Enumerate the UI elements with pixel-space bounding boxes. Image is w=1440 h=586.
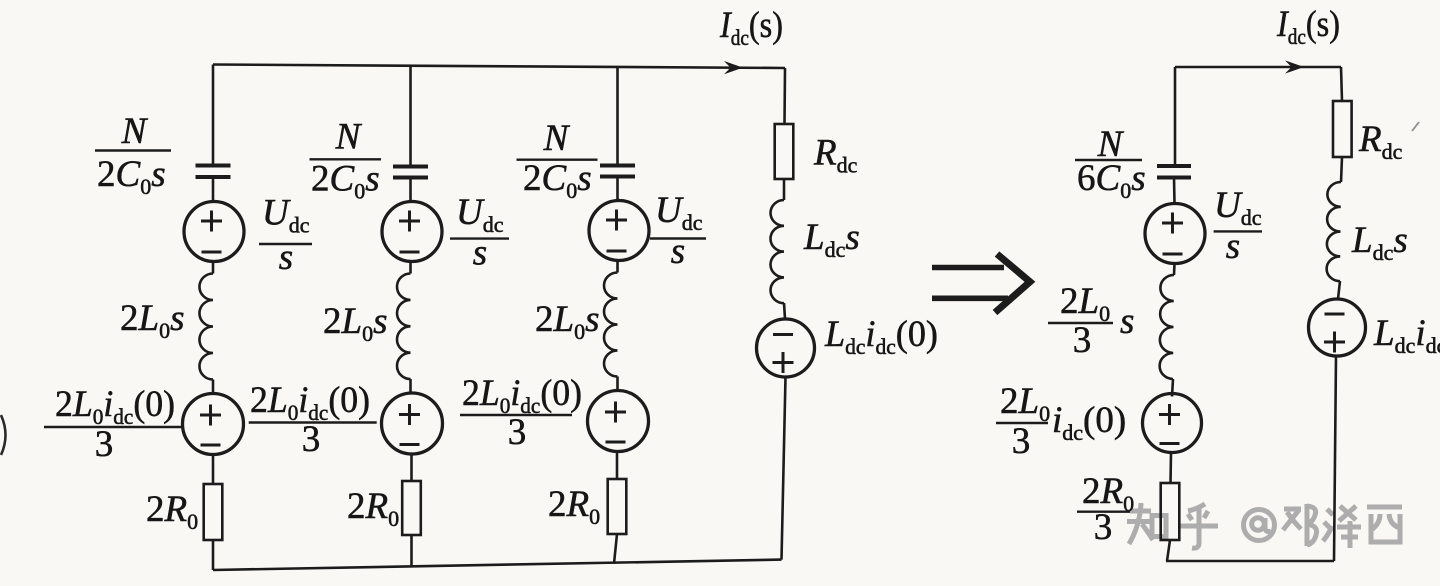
inductor Ldcs right circuit	[1327, 182, 1341, 281]
resistor Rdc main	[775, 124, 794, 179]
arrow Idc(s) right circuit	[1285, 60, 1304, 73]
wire right branch top lead	[783, 68, 786, 124]
wire branch 2 inductor to source2	[409, 379, 412, 393]
svg-text:N: N	[121, 111, 149, 152]
resistor 2R0 branch 3	[608, 479, 627, 534]
wire branch 2 source2 to resistor	[410, 454, 413, 481]
wire branch 3 source to inductor	[616, 261, 619, 273]
source Udc/s branch 3	[589, 201, 649, 261]
capacitor N/2C0s branch 1	[196, 166, 231, 178]
wire branch 2 source to inductor	[409, 262, 412, 274]
source 2L0idc(0)/3 branch 3	[588, 391, 649, 452]
wire branch 3 source2 to resistor	[616, 452, 619, 480]
wire source2 to resistor right circuit	[1169, 453, 1172, 484]
wire top bus right circuit	[1175, 66, 1341, 69]
stray mark top right	[1412, 122, 1419, 131]
wire Ldc to source right circuit	[1338, 281, 1340, 299]
svg-text:2L0s: 2L0s	[535, 299, 599, 344]
wire branch 2 cap to source	[409, 178, 412, 202]
inductor Ldcs main	[771, 200, 785, 303]
wire cap to source right circuit	[1173, 178, 1176, 204]
source 2L0/3 idc(0) right circuit	[1143, 394, 1202, 453]
svg-text:3: 3	[1012, 421, 1031, 462]
wire bottom bus node	[213, 560, 782, 570]
inductor 2L0s branch 1	[199, 274, 213, 380]
source Udc/s branch 2	[382, 202, 442, 262]
wire branch 3 top lead	[616, 67, 619, 166]
svg-text:s: s	[473, 233, 487, 274]
wire top bus node	[213, 65, 785, 69]
svg-text:N: N	[543, 118, 571, 159]
wire right branch top lead right circuit	[1341, 67, 1342, 101]
wire branch 1 top lead	[212, 65, 215, 166]
resistor Rdc right circuit	[1333, 101, 1352, 157]
inductor 2L0/3 s right circuit	[1160, 275, 1174, 379]
wire branch 2 bottom lead	[410, 535, 413, 567]
svg-text:3: 3	[95, 424, 114, 465]
resistor 2R0 branch 2	[402, 481, 421, 535]
arrow Idc(s) on top bus	[724, 61, 743, 74]
wire branch 3 cap to source	[616, 177, 619, 201]
capacitor N/2C0s branch 3	[600, 166, 635, 177]
source Ldcidc(0) main	[757, 319, 815, 377]
wire branch 1 cap to source	[212, 177, 215, 202]
capacitor N/2C0s branch 2	[393, 167, 428, 178]
svg-text:2L0s: 2L0s	[323, 301, 387, 346]
capacitor N/6C0s	[1157, 166, 1191, 178]
svg-text:Idc(s): Idc(s)	[719, 5, 783, 50]
source 2L0idc(0)/3 branch 1	[183, 394, 244, 455]
resistor 2R0 branch 1	[204, 484, 223, 540]
wire branch 1 source to inductor	[212, 262, 215, 274]
svg-text:s: s	[279, 237, 293, 278]
wire inductor to source2 right circuit	[1172, 379, 1173, 397]
inductor 2L0s branch 2	[397, 274, 411, 380]
svg-text:3: 3	[1094, 507, 1113, 548]
svg-text:2C0s: 2C0s	[97, 154, 166, 199]
wire branch 1 inductor to source2	[212, 380, 215, 394]
wire left branch bottom lead right circuit	[1167, 540, 1170, 561]
wire branch 3 inductor to source2	[616, 377, 619, 391]
wire right branch bottom lead right circuit	[1334, 356, 1336, 561]
resistor 2R0/3 right circuit	[1161, 483, 1180, 540]
wire bottom bus right circuit	[1166, 560, 1334, 563]
wire branch 2 top lead	[409, 66, 412, 167]
svg-text:Idc(s): Idc(s)	[1276, 4, 1340, 49]
source Udc/s right circuit	[1145, 204, 1205, 264]
wire branch 3 bottom lead	[614, 534, 617, 564]
svg-text:2C0s: 2C0s	[311, 159, 380, 204]
wire Rdc to Ldc right circuit	[1341, 157, 1342, 182]
svg-text:s: s	[1226, 226, 1240, 267]
big implication arrow	[932, 254, 1030, 313]
svg-text:3: 3	[508, 412, 527, 453]
svg-text:s: s	[671, 231, 685, 272]
wire right branch bottom lead	[782, 377, 786, 560]
wire Rdc to Ldc	[783, 179, 786, 200]
svg-text:3: 3	[302, 419, 321, 460]
wire source to inductor right circuit	[1173, 264, 1176, 276]
svg-text:s: s	[1120, 301, 1134, 342]
left edge paren fragment	[1, 415, 6, 455]
watermark zhihu @dengzexi	[1127, 503, 1402, 548]
svg-text:6C0s: 6C0s	[1077, 158, 1146, 203]
source Udc/s branch 1	[184, 202, 244, 262]
wire left branch top lead right circuit	[1174, 67, 1177, 166]
wire branch 1 bottom lead	[212, 540, 215, 570]
wire branch 1 source2 to resistor	[212, 455, 215, 485]
inductor 2L0s branch 3	[604, 273, 618, 377]
svg-text:2C0s: 2C0s	[523, 158, 592, 203]
source Ldcidc(0) right circuit	[1309, 299, 1366, 356]
svg-text:3: 3	[1073, 320, 1092, 361]
source 2L0idc(0)/3 branch 2	[382, 393, 443, 454]
svg-text:N: N	[335, 117, 363, 158]
svg-text:2L0s: 2L0s	[120, 298, 184, 343]
wire Ldc to source	[784, 303, 785, 319]
